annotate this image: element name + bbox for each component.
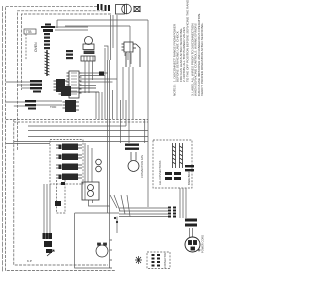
wire bus y130.5 <box>28 130 148 132</box>
pins <box>56 165 82 168</box>
wire top run to line break <box>57 19 148 21</box>
wire left feeders to cluster <box>6 81 30 83</box>
svg-text:ALL CONNECTIONS: ALL CONNECTIONS <box>158 160 162 185</box>
wire right trunk x148 <box>147 20 149 207</box>
wire <box>127 195 130 217</box>
tick below plug <box>198 249 201 252</box>
wire <box>92 200 94 203</box>
wire lower-right horizontals <box>119 207 168 209</box>
wire corner x104 <box>104 46 108 60</box>
star cluster <box>135 256 142 264</box>
wire <box>116 15 118 119</box>
wire <box>109 60 111 206</box>
wire <box>114 195 120 211</box>
wire bus y141.5 <box>14 141 148 143</box>
border frame 2 <box>18 11 105 150</box>
infinite switch row 3 <box>59 164 79 171</box>
wire <box>185 188 187 218</box>
relay board K1 <box>67 71 82 98</box>
wire <box>107 60 109 213</box>
connector cluster below elements <box>165 165 194 180</box>
inner frame left/bottom <box>14 119 108 265</box>
side box lower-left <box>57 180 66 213</box>
wire <box>119 216 168 218</box>
svg-text:BAKE BROIL: BAKE BROIL <box>187 169 191 185</box>
right connector columns <box>168 207 176 218</box>
wire x126 riser <box>125 100 127 126</box>
svg-text:TO THE OFF POSITION BEFORE SER: TO THE OFF POSITION BEFORE SERVICING THE… <box>185 0 189 82</box>
svg-text:VERIFY PROPER OPERATION AFTER: VERIFY PROPER OPERATION AFTER SERVICING. <box>200 22 204 96</box>
svg-text:CONNECTOR: CONNECTOR <box>164 252 167 268</box>
oven lamp 2 <box>88 191 94 197</box>
wire bus y143.5 <box>6 143 50 145</box>
infinite switch row 2 <box>59 154 79 161</box>
infinite switch row 4 <box>59 174 79 181</box>
wire <box>104 48 106 119</box>
motor top B <box>116 4 132 14</box>
junction dots <box>114 217 118 223</box>
pins <box>54 81 68 90</box>
wire <box>119 210 168 212</box>
wire <box>112 15 114 48</box>
wire <box>85 61 93 88</box>
connector cluster left-mid <box>30 80 42 93</box>
wire bus y126 <box>28 125 126 127</box>
wire mid bus dashed 1 <box>6 119 148 121</box>
wire <box>98 92 100 119</box>
dashed sub-box left <box>25 34 27 60</box>
bake element coil <box>180 143 183 168</box>
border frame 3 <box>22 14 112 90</box>
door lock box <box>75 206 110 268</box>
pins <box>56 145 82 148</box>
svg-text:OVEN: OVEN <box>34 42 38 52</box>
bottom-left component cluster <box>44 241 52 253</box>
fan leads <box>131 152 136 161</box>
notes text block (rotated) <box>173 0 205 96</box>
power cord plug <box>185 237 200 252</box>
wire left feeders mid cluster <box>6 101 25 103</box>
wire risers right of bank <box>85 143 92 200</box>
convection fan motor <box>128 161 139 172</box>
wire clock drops <box>122 67 124 119</box>
wire <box>121 195 125 214</box>
wire bottom box top run <box>75 212 119 214</box>
clock/timer <box>122 42 141 67</box>
wire right trunk x144.7 <box>144 119 146 143</box>
connector pins inside <box>152 254 161 267</box>
harness hatched bundle <box>45 50 50 76</box>
connector rows right-mid <box>125 144 139 150</box>
connector cluster top-left <box>41 24 55 33</box>
wire diagonals to EOC <box>110 195 117 208</box>
oven lamp 1 <box>88 185 94 191</box>
wire right element drops <box>179 188 181 218</box>
wire <box>192 228 194 237</box>
wire switch bank drops left <box>43 184 45 233</box>
connector chain 1 <box>44 33 50 49</box>
svg-text:POWER CORD: POWER CORD <box>201 235 205 253</box>
lamp box bottom <box>82 182 99 200</box>
svg-text:K.P: K.P <box>27 259 32 263</box>
pins <box>55 182 65 206</box>
wire <box>55 27 88 30</box>
switch S1 <box>56 79 65 92</box>
indicator light 1 <box>96 159 102 165</box>
bottom-right dashed connector box <box>147 252 170 269</box>
arrow mark <box>47 250 54 256</box>
probe dome motor <box>81 37 95 62</box>
wire junction riser <box>116 217 118 234</box>
wires mid horizontals <box>80 73 117 93</box>
wire mid bus dashed 2 <box>14 121 148 123</box>
wire <box>119 213 168 215</box>
bracket marks right of motor <box>110 240 112 268</box>
indicator light 2 <box>96 166 102 172</box>
lamp top C <box>134 6 141 12</box>
wire <box>36 101 62 105</box>
wire <box>14 105 25 107</box>
wire lamp box drops <box>89 200 110 206</box>
wire fan risers center <box>95 92 97 119</box>
wire run y26 <box>65 25 130 27</box>
bottom connector tips <box>43 233 53 239</box>
infinite switch row 1 <box>59 144 79 151</box>
pins <box>59 88 100 94</box>
wire <box>120 100 122 143</box>
plug connector rows <box>185 219 197 227</box>
component A mid <box>61 86 71 96</box>
node junction wires upper mid verticals <box>110 15 112 60</box>
svg-text:77B: 77B <box>26 30 33 34</box>
wire <box>18 84 31 86</box>
surface switch bank dashed box <box>50 140 83 185</box>
wire <box>46 184 48 233</box>
connector 77B box <box>24 29 36 34</box>
wire bus y136.5 <box>28 136 148 138</box>
connector cluster mid-left <box>25 100 36 110</box>
connector chain 2 <box>66 50 73 59</box>
wire <box>49 184 51 233</box>
component cluster: terminal pins top A <box>97 4 110 11</box>
pins <box>63 102 80 110</box>
svg-text:TOD: TOD <box>50 105 57 109</box>
wire <box>22 87 31 89</box>
svg-text:NOTES:: NOTES: <box>173 84 177 96</box>
bake broil element dashed box <box>153 140 192 188</box>
paper edge line <box>2 6 4 272</box>
wire <box>182 188 184 218</box>
door lock motor <box>96 243 108 257</box>
wire <box>112 90 114 119</box>
svg-text:CONVECTION FAN: CONVECTION FAN <box>140 155 144 178</box>
wire trunk x130 <box>129 26 131 67</box>
pins <box>56 175 82 178</box>
wire <box>101 92 103 119</box>
wire plug leads <box>189 228 191 237</box>
wire <box>128 67 130 143</box>
outer border frame <box>6 6 116 270</box>
wire vertical drop x57 <box>56 20 58 28</box>
pins <box>56 155 82 158</box>
wire <box>132 67 134 119</box>
connector small on wire <box>99 72 104 76</box>
component B mid <box>65 100 76 112</box>
broil element coil <box>173 143 176 168</box>
